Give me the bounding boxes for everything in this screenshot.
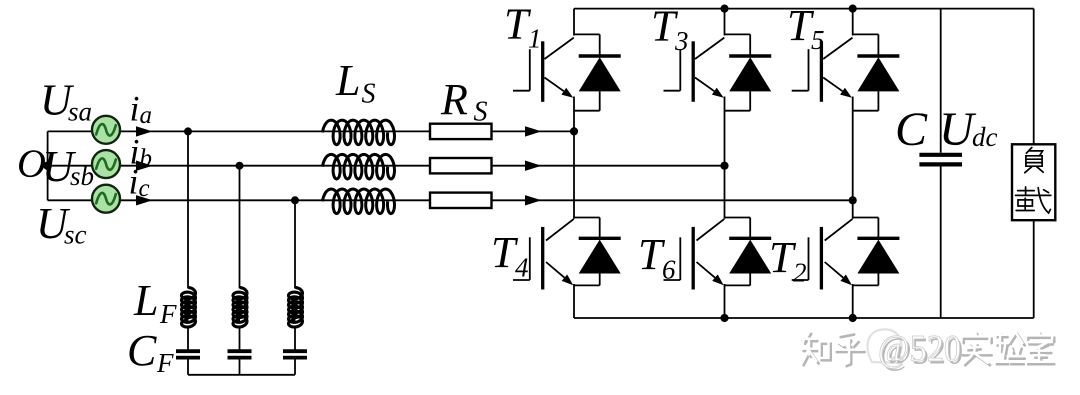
wire leg b upper emitter to lower module bbox=[724, 97, 726, 219]
svg-text:1: 1 bbox=[528, 24, 542, 54]
wire phase a horizontal bbox=[48, 130, 574, 132]
wire left neutral bus (node O vertical) bbox=[47, 131, 49, 200]
inductor L_F phase a bbox=[182, 288, 196, 328]
load label 负 bbox=[1025, 148, 1043, 173]
junction phase b filter tap bbox=[236, 162, 244, 170]
junction phase c filter tap bbox=[291, 196, 299, 204]
capacitor C_F phase a bbox=[176, 351, 200, 357]
wire coil to capacitor phase b bbox=[239, 327, 241, 351]
svg-text:sb: sb bbox=[70, 161, 94, 191]
current arrow i_c bbox=[136, 195, 153, 205]
svg-text:S: S bbox=[474, 97, 488, 128]
wire phase b horizontal bbox=[48, 165, 725, 167]
svg-text:R: R bbox=[440, 75, 468, 124]
svg-text:F: F bbox=[159, 299, 177, 329]
junction phase b bridge midpoint bbox=[720, 162, 728, 170]
line arrow into bridge phase b bbox=[525, 161, 542, 171]
label T5 bbox=[787, 1, 825, 55]
wire capacitor to bottom bus phase a bbox=[187, 359, 189, 375]
inductor L_S phase c bbox=[323, 189, 395, 214]
resistor R_S phase c bbox=[430, 193, 492, 208]
IGBT T1 with antiparallel diode bbox=[513, 34, 621, 110]
label U_sb bbox=[42, 142, 94, 191]
wire capacitor C top lead bbox=[940, 9, 942, 153]
IGBT T4 with antiparallel diode bbox=[513, 218, 621, 290]
svg-text:C: C bbox=[127, 326, 157, 375]
load box (fu-zai) bbox=[1012, 144, 1055, 220]
svg-text:c: c bbox=[139, 175, 150, 202]
AC source U_sc bbox=[92, 185, 120, 213]
svg-text:F: F bbox=[156, 348, 174, 378]
load label 载 bbox=[1016, 187, 1051, 213]
IGBT T6 with antiparallel diode bbox=[664, 218, 772, 290]
wire leg c top-rail to upper module bbox=[852, 9, 854, 36]
wire coil to capacitor phase a bbox=[187, 327, 189, 351]
label T4 bbox=[491, 228, 529, 283]
wire filter branch c vertical bbox=[294, 200, 296, 288]
svg-text:4: 4 bbox=[515, 253, 529, 283]
wire leg c upper emitter to lower module bbox=[852, 97, 854, 219]
inductor L_S phase b bbox=[323, 154, 395, 179]
svg-text:5: 5 bbox=[811, 25, 825, 55]
label U_dc bbox=[939, 103, 998, 156]
wire leg a lower emitter to bottom rail bbox=[573, 284, 575, 318]
label U_sa bbox=[40, 76, 92, 127]
AC source U_sa bbox=[92, 116, 120, 144]
node O junction dot bbox=[43, 161, 52, 170]
wire capacitor to bottom bus phase c bbox=[294, 359, 296, 375]
svg-text:@520: @520 bbox=[878, 328, 961, 370]
junction top rail leg T5 bbox=[849, 5, 857, 13]
AC source U_sb bbox=[92, 150, 120, 178]
junction top rail leg T3 bbox=[720, 5, 728, 13]
svg-text:L: L bbox=[335, 56, 360, 105]
junction bottom rail leg T6 bbox=[720, 314, 728, 322]
wire DC negative bottom rail bbox=[574, 317, 1034, 319]
svg-text:sc: sc bbox=[64, 220, 87, 250]
junction phase a filter tap bbox=[184, 127, 192, 135]
capacitor C plates bbox=[919, 155, 962, 165]
junction phase c bridge midpoint bbox=[849, 196, 857, 204]
label O bbox=[17, 141, 46, 186]
capacitor C_F phase b bbox=[228, 351, 252, 357]
wire load top lead bbox=[1033, 9, 1035, 145]
svg-text:2: 2 bbox=[793, 258, 807, 288]
IGBT T2 with antiparallel diode bbox=[792, 218, 900, 290]
svg-text:b: b bbox=[140, 145, 153, 172]
label T2 bbox=[769, 233, 807, 288]
inductor L_F phase b bbox=[233, 288, 247, 328]
wire leg a upper emitter to lower module bbox=[573, 97, 575, 219]
label T1 bbox=[504, 0, 542, 54]
line arrow into bridge phase a bbox=[525, 126, 542, 136]
IGBT T3 with antiparallel diode bbox=[664, 34, 772, 110]
wire load bottom lead bbox=[1033, 220, 1035, 318]
label i_a bbox=[130, 89, 153, 130]
inductor L_F phase c bbox=[289, 288, 303, 328]
wire filter branch a vertical bbox=[187, 131, 189, 288]
resistor R_S phase b bbox=[430, 158, 492, 173]
wire filter branch b vertical bbox=[239, 166, 241, 289]
current arrow i_b bbox=[136, 161, 153, 171]
capacitor C_F phase c bbox=[283, 351, 307, 357]
svg-text:dc: dc bbox=[972, 122, 998, 152]
label C_F bbox=[127, 326, 174, 378]
svg-text:L: L bbox=[133, 276, 158, 325]
wire leg a top-rail to upper module bbox=[573, 9, 575, 36]
label L_S bbox=[335, 56, 376, 110]
svg-text:i: i bbox=[129, 162, 139, 202]
label L_F bbox=[133, 276, 177, 329]
wire filter bottom bus bbox=[188, 374, 295, 376]
label i_b bbox=[130, 132, 153, 173]
wire phase c horizontal bbox=[48, 199, 853, 201]
svg-text:6: 6 bbox=[662, 255, 676, 285]
svg-text:C: C bbox=[895, 103, 928, 156]
wire leg b top-rail to upper module bbox=[724, 9, 726, 36]
label T6 bbox=[638, 230, 676, 285]
svg-text:sa: sa bbox=[68, 97, 92, 127]
wire capacitor to bottom bus phase b bbox=[239, 359, 241, 375]
svg-text:a: a bbox=[140, 102, 153, 129]
label C bbox=[895, 103, 928, 156]
IGBT T5 with antiparallel diode bbox=[792, 34, 900, 110]
label T3 bbox=[651, 2, 689, 57]
wire DC positive top rail bbox=[574, 8, 1034, 10]
inductor L_S phase a bbox=[323, 120, 395, 145]
resistor R_S phase a bbox=[430, 124, 492, 139]
label R_S bbox=[440, 75, 488, 128]
svg-text:3: 3 bbox=[674, 26, 689, 56]
label U_sc bbox=[36, 199, 87, 250]
svg-text:S: S bbox=[362, 79, 376, 110]
wire capacitor C bottom lead bbox=[940, 166, 942, 318]
wire leg b lower emitter to bottom rail bbox=[724, 284, 726, 318]
wire leg c lower emitter to bottom rail bbox=[852, 284, 854, 318]
current arrow i_a bbox=[136, 126, 153, 136]
wire coil to capacitor phase c bbox=[294, 327, 296, 351]
watermark 知乎 @520实验室 bbox=[801, 328, 1055, 372]
label i_c bbox=[129, 162, 150, 203]
junction phase a bridge midpoint bbox=[570, 127, 578, 135]
junction bottom rail leg T2 bbox=[849, 314, 857, 322]
svg-text:i: i bbox=[130, 89, 140, 129]
line arrow into bridge phase c bbox=[525, 195, 542, 205]
